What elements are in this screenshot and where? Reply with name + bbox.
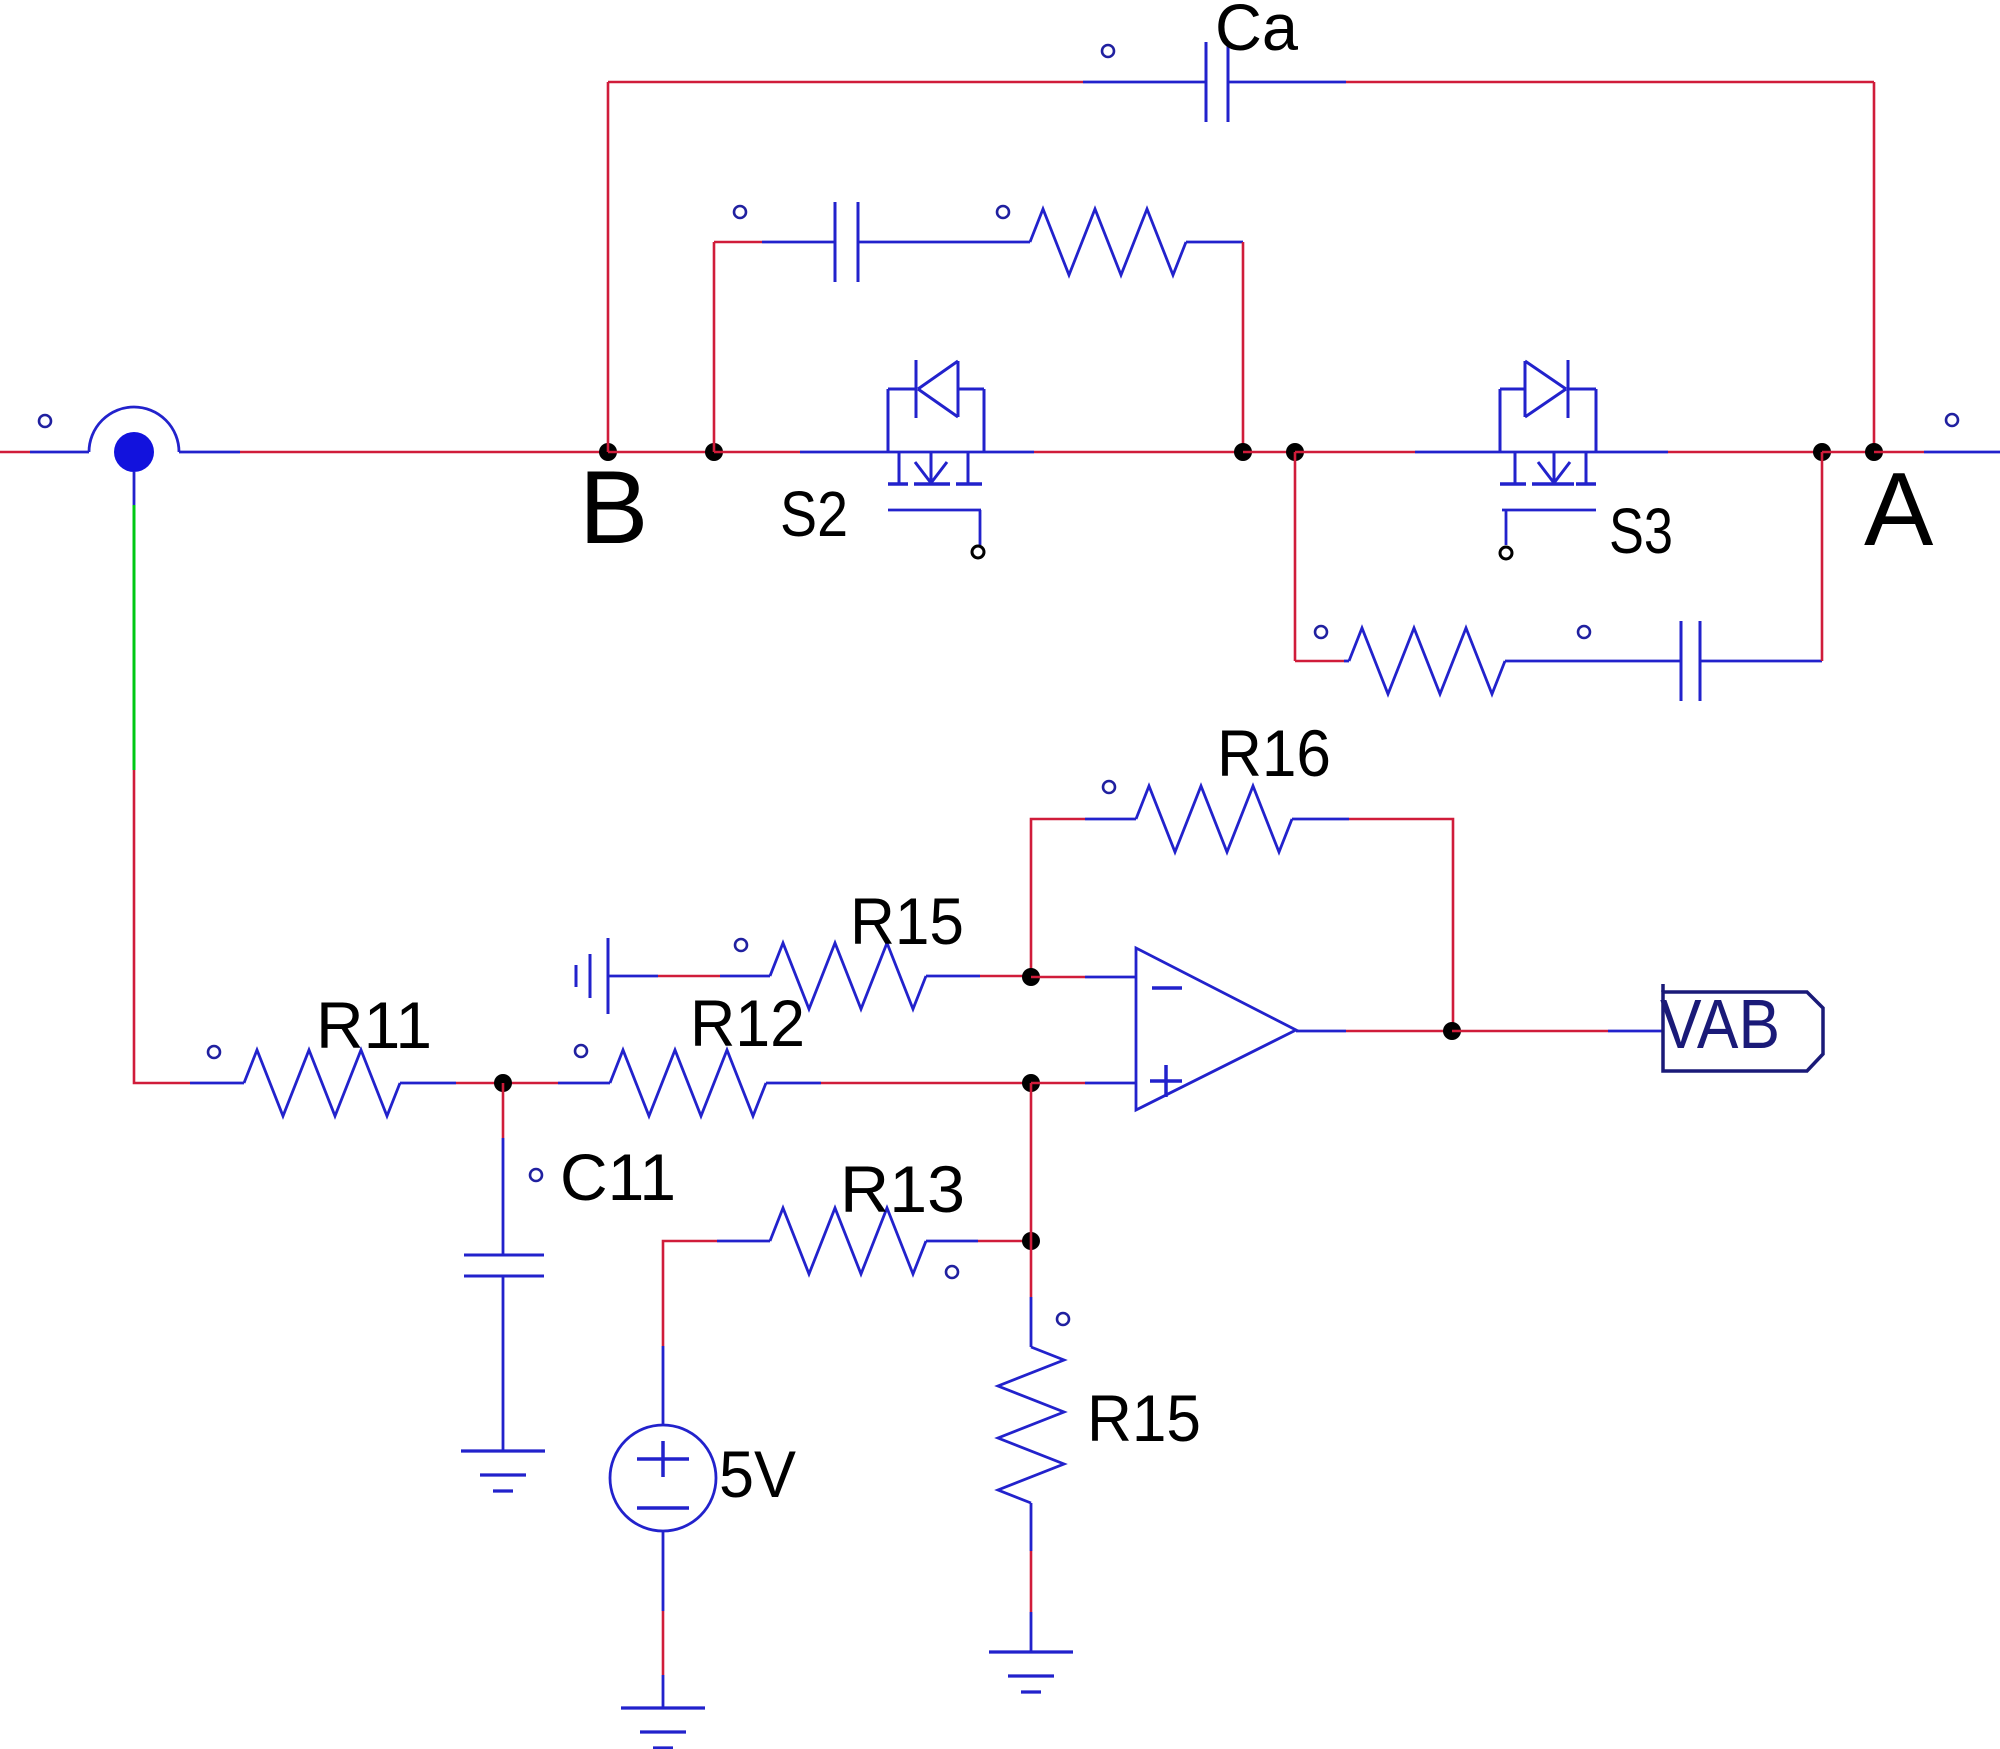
svg-text:S2: S2 (780, 478, 848, 550)
wire red R13 to junction (978, 1240, 1031, 1243)
wire blue 5V top lead (662, 1346, 665, 1425)
ground symbol below R15 (989, 1652, 1073, 1692)
wire red A to right port (1874, 451, 1924, 454)
resistor R16 feedback row (1031, 716, 1453, 1031)
node inverting junction dot (1022, 968, 1040, 986)
svg-text:R15: R15 (1087, 1381, 1201, 1455)
wire red vertical plus-node to R13 node (1030, 1083, 1033, 1241)
wire red to S3 lead (1295, 451, 1415, 454)
diode D2 body (points left) (916, 360, 958, 418)
node terminal circle right port (1946, 414, 1958, 426)
transistor S2 gate lead (979, 510, 982, 545)
svg-text:R13: R13 (840, 1152, 965, 1226)
transistor S2 body frame (888, 389, 984, 452)
wire red Ca row right (1346, 81, 1874, 84)
voltage source V11 minus mark (637, 1506, 689, 1510)
svg-text:R12: R12 (690, 986, 805, 1060)
wire blue R13 left lead (717, 1240, 770, 1243)
wire red lower branch left vertical (1294, 452, 1297, 661)
transistor S2 channel dashes (888, 482, 982, 486)
wire blue R12 right lead (766, 1082, 821, 1085)
transistor S3 channel line blue (1415, 451, 1668, 454)
wire red S2 to snubber node (1034, 451, 1243, 454)
transistor S3 gate terminal circle (1500, 547, 1512, 559)
wire blue R11 left lead (190, 1082, 244, 1085)
resistor R13 zigzag (770, 1208, 926, 1274)
wire blue probe to main run (179, 451, 240, 454)
current probe ISEN1 arc (89, 407, 179, 452)
svg-text:5V: 5V (719, 1437, 796, 1511)
capacitor C3 lower pin circle (1578, 626, 1590, 638)
wire red vertical snubber branch right (1242, 242, 1245, 452)
wire red snubber row left (714, 241, 762, 244)
wire left stub red main bus (0, 451, 30, 454)
svg-text:Ca: Ca (1215, 0, 1298, 64)
wire red junction to opamp plus (1031, 1082, 1085, 1085)
wire red junction to opamp minus (1031, 976, 1085, 979)
ground symbol rotated left of R15 (576, 938, 608, 1014)
svg-text:C11: C11 (560, 1140, 676, 1214)
wire blue R11 right lead (400, 1082, 456, 1085)
node VAB voltage tag box (1663, 984, 1823, 1071)
svg-text:S3: S3 (1609, 495, 1673, 567)
svg-text:B: B (579, 450, 648, 566)
wire blue R15 left lead (720, 975, 770, 978)
wire red between junctions (1243, 451, 1295, 454)
wire blue R13 right lead (926, 1240, 978, 1243)
transistor S3 body frame (1500, 389, 1596, 452)
resistor R15 pin circle (735, 939, 747, 951)
transistor S2 channel line blue (800, 451, 1034, 454)
wire blue C11 bottom lead (502, 1276, 505, 1451)
wire blue snubber cap to resistor (858, 241, 1030, 244)
wire red Ca row left (608, 81, 1083, 84)
transistor S3 channel stubs and arrow (1515, 452, 1586, 484)
wire blue lower cap right lead (1700, 660, 1822, 663)
capacitor C2 pin circle (734, 206, 746, 218)
wire red 5V to ground (662, 1611, 665, 1675)
wire blue snubber right lead (1186, 241, 1243, 244)
node C11 junction dot (494, 1074, 512, 1092)
resistor R15 vertical zigzag (998, 1347, 1064, 1503)
wire blue into opamp plus (1085, 1082, 1136, 1085)
wire blue R12 left lead (558, 1082, 610, 1085)
resistor R2 snubber pin circle (997, 206, 1009, 218)
wire red C11 branch down (502, 1083, 505, 1138)
wire red S3 to node A region (1668, 451, 1822, 454)
wire blue ground stub 5V (662, 1675, 665, 1708)
svg-text:VAB: VAB (1660, 985, 1780, 1063)
op-amp U1 minus sign (1152, 986, 1182, 990)
wire green probe sense lead (133, 505, 136, 770)
wire red 5V riser and R13 row left (663, 1241, 717, 1346)
wire red output junction to tag (1452, 1030, 1608, 1033)
resistor R11 zigzag (244, 1050, 400, 1116)
svg-text:R15: R15 (850, 884, 964, 958)
svg-text:R11: R11 (316, 988, 432, 1062)
resistor R15 zigzag (770, 943, 926, 1009)
wire blue opamp output lead (1296, 1030, 1346, 1033)
transistor S3 gate bar (1502, 509, 1596, 512)
wire blue into VAB tag (1608, 1030, 1663, 1033)
wire red vertical B up to Ca row (607, 82, 610, 452)
op-amp U1 triangle (1136, 948, 1296, 1110)
transistor S3 channel dashes (1500, 482, 1596, 486)
node branch junction dot (705, 443, 723, 461)
op-amp U1 plus sign (1150, 1065, 1182, 1097)
wire red between A dots (1822, 451, 1874, 454)
voltage source V11 plus mark (637, 1441, 689, 1477)
wire blue R15 right lead (926, 975, 980, 978)
wire blue R16 left lead (1085, 818, 1136, 821)
wire blue right port stub (1924, 451, 2000, 454)
wire red R16 left corner (1031, 819, 1085, 977)
wire red S2 drain lead (714, 451, 800, 454)
wire blue lower resistor left lead (1344, 660, 1349, 663)
wire red lower branch row left (1295, 660, 1344, 663)
wire red R11 row lead-in handled above; resistor R11 pin circle (208, 1046, 220, 1058)
wire blue snubber cap left lead (762, 241, 835, 244)
voltage source V11 circle (610, 1425, 716, 1531)
node lower branch left junction dot (1286, 443, 1304, 461)
wire red R13 node down (1030, 1241, 1033, 1297)
node lower branch right junction dot (1813, 443, 1831, 461)
wire blue into opamp minus (1085, 976, 1136, 979)
resistor R12 pin circle (575, 1045, 587, 1057)
wire blue lead to current probe (30, 451, 89, 454)
resistor R16 zigzag (1136, 786, 1292, 852)
node B junction dot (599, 443, 617, 461)
resistor R13 pin circle (946, 1266, 958, 1278)
transistor S2 gate terminal circle (972, 546, 984, 558)
svg-text:A: A (1864, 452, 1934, 568)
wire red lower branch right vertical (1821, 452, 1824, 661)
wire red R12 to junction (821, 1082, 1031, 1085)
transistor S2 gate bar (888, 509, 981, 512)
wire blue 5V bottom lead (662, 1531, 665, 1611)
capacitor Ca plates (1206, 42, 1228, 122)
wire blue R15v top lead (1030, 1297, 1033, 1347)
wire red output to junction (1346, 1030, 1452, 1033)
wire red R12 row from C11 node (503, 1082, 558, 1085)
wire blue R16 right lead (1292, 818, 1349, 821)
node noninverting junction dot (1022, 1074, 1040, 1092)
wire red R11 to C11 node (456, 1082, 503, 1085)
node snubber right junction dot (1234, 443, 1252, 461)
capacitor C3 lower plates (1681, 621, 1700, 701)
wire red R16 right corner down (1349, 819, 1453, 1031)
wire red vertical down to node A (1873, 82, 1876, 452)
ground symbol below 5V (621, 1708, 705, 1748)
ground symbol below C11 (461, 1451, 545, 1491)
wire red R15 row left (658, 975, 720, 978)
transistor S2 channel stubs and arrow (899, 452, 968, 484)
wire blue ground stub R15v (1030, 1612, 1033, 1652)
wire red R15v to ground (1030, 1551, 1033, 1612)
wire red down to R11 row (134, 770, 190, 1083)
node output junction dot (1443, 1022, 1461, 1040)
resistor R3 lower pin circle (1315, 626, 1327, 638)
transistor S3 gate lead (1505, 510, 1508, 545)
wire blue Ca right lead (1228, 81, 1346, 84)
wire blue C11 top lead (502, 1138, 505, 1255)
current probe ISEN1 dot (114, 432, 154, 472)
resistor R12 zigzag (610, 1050, 766, 1116)
node terminal circle left port (39, 415, 51, 427)
node R13 junction dot (1022, 1232, 1040, 1250)
resistor R16 pin circle (1103, 781, 1115, 793)
resistor R2 snubber zigzag (1030, 209, 1186, 275)
node A junction dot (1865, 443, 1883, 461)
wire red vertical snubber branch left (713, 242, 716, 452)
wire blue lower resistor to cap (1505, 660, 1681, 663)
wire blue Ca left lead (1083, 81, 1206, 84)
resistor R3 lower zigzag (1349, 628, 1505, 694)
capacitor C11 plates (464, 1255, 544, 1276)
wire blue ground lead R15 row (608, 975, 658, 978)
capacitor C2 snubber plates (835, 202, 858, 282)
capacitor Ca pin circle (1102, 45, 1114, 57)
capacitor C11 pin circle (530, 1169, 542, 1181)
wire blue R15v bottom lead (1030, 1503, 1033, 1551)
wire red main run to node B (240, 451, 608, 454)
svg-text:R16: R16 (1217, 716, 1331, 790)
wire blue probe bottom stub (133, 472, 136, 505)
wire red R15 to junction (980, 975, 1031, 978)
diode D3 body (points right) (1525, 360, 1568, 418)
wire red B to branch node (608, 451, 714, 454)
resistor R15 vertical pin circle (1057, 1313, 1069, 1325)
